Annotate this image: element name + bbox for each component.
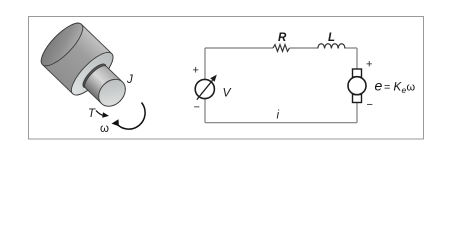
- svg-text:+: +: [366, 59, 372, 71]
- svg-text:−: −: [367, 99, 373, 111]
- wire right vertical: [356, 48, 358, 123]
- svg-text:e: e: [375, 78, 383, 94]
- motor body (3D drawing): [35, 17, 139, 120]
- voltage source V: [195, 79, 214, 98]
- svg-text:i: i: [277, 110, 280, 122]
- bottom brush: [353, 95, 362, 103]
- wire bottom: [205, 122, 357, 124]
- shaft end cap: [93, 74, 130, 112]
- top brush: [353, 69, 362, 77]
- wire top mid: [290, 47, 318, 49]
- motor front cap: [66, 47, 119, 101]
- inductor L1: [318, 44, 345, 49]
- border frame: [29, 17, 424, 140]
- wire left vertical: [204, 48, 206, 123]
- motor symbol (back-emf): [348, 69, 366, 103]
- svg-text:J: J: [126, 74, 133, 86]
- torque arrow: [96, 111, 104, 116]
- motor rear cap: [35, 17, 88, 71]
- shaft side: [81, 63, 130, 112]
- svg-text:R: R: [278, 32, 287, 44]
- svg-text:+: +: [193, 65, 199, 77]
- svg-text:=: =: [384, 82, 390, 94]
- svg-text:ω: ω: [100, 123, 109, 135]
- resistor R1: [273, 45, 290, 52]
- rotor circle: [348, 77, 366, 95]
- svg-text:L: L: [328, 32, 335, 44]
- svg-text:T: T: [88, 108, 96, 120]
- circuit wires: [205, 48, 357, 123]
- svg-text:ω: ω: [407, 82, 416, 94]
- svg-text:−: −: [194, 102, 200, 114]
- svg-text:V: V: [223, 86, 232, 100]
- shaft hub: [80, 61, 109, 91]
- wire top right: [345, 47, 357, 49]
- speed arc arrow: [116, 103, 145, 130]
- wire top left: [205, 47, 273, 49]
- motor body side: [35, 17, 118, 100]
